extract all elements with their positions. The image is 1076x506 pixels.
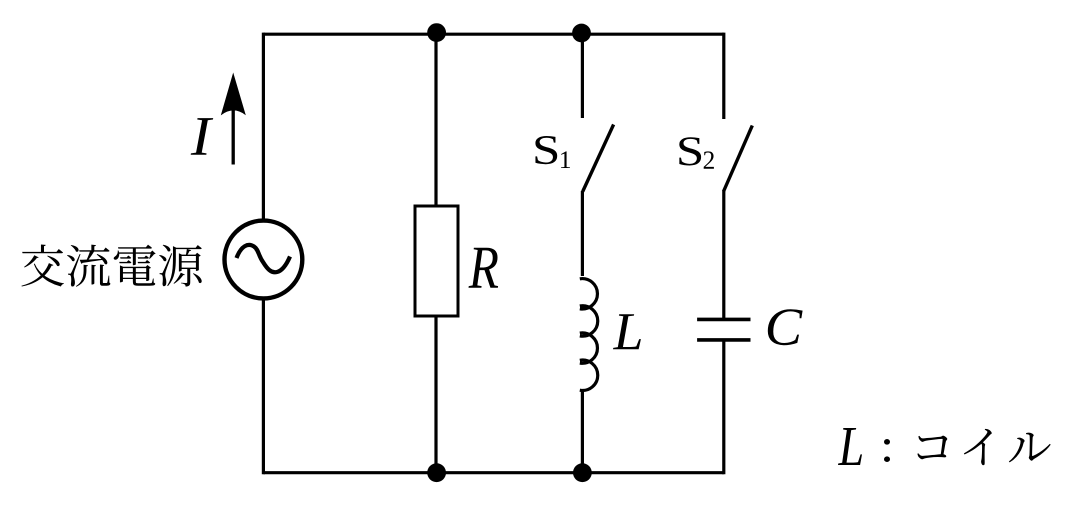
- label S1 subscript 1: [561, 151, 570, 168]
- junction dot node at (436.6,32): [427, 23, 446, 42]
- label S1: [535, 136, 557, 164]
- label L (inductor): [613, 314, 641, 349]
- wire resistor branch upper: [434, 34, 437, 205]
- legend L : コイル (L = coil): [838, 428, 890, 465]
- switch S1 blade: [583, 125, 614, 192]
- wire inductor branch lower: [581, 392, 584, 473]
- wire S2 branch upper: [722, 33, 725, 119]
- ac source circle: [225, 221, 303, 299]
- label S2: [679, 137, 701, 165]
- resistor R body: [415, 206, 458, 316]
- wire left branch upper: [262, 33, 265, 221]
- junction dot node at (581.5,33): [572, 24, 591, 43]
- label R: [469, 248, 499, 288]
- wire capacitor branch lower: [722, 340, 725, 474]
- wire left branch lower: [262, 299, 265, 475]
- junction dot node at (582.4,472): [573, 463, 592, 482]
- label 交流電源 (AC power source): [21, 244, 201, 286]
- wire S1 branch middle: [581, 191, 584, 276]
- wire top rail: [263, 33, 723, 36]
- current arrow I head: [221, 73, 246, 116]
- label S2 subscript 2: [704, 151, 714, 168]
- switch S2 blade: [724, 126, 753, 192]
- junction dot node at (436.6,472): [427, 463, 446, 482]
- label I: [191, 118, 213, 155]
- wire S2 branch middle: [722, 191, 725, 319]
- wire S1 branch upper: [581, 34, 584, 118]
- wire bottom rail: [263, 471, 723, 474]
- inductor L coil: [580, 279, 598, 391]
- label C (capacitor): [768, 309, 803, 345]
- ac source sine wave: [237, 245, 291, 272]
- current arrow I shaft: [232, 95, 235, 165]
- capacitor C plates: [697, 318, 750, 322]
- wire resistor branch lower: [434, 317, 437, 473]
